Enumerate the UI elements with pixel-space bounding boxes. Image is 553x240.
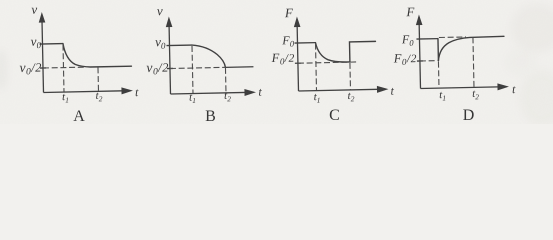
- graph D dashed vertical t1: [437, 62, 440, 88]
- paper background: [0, 0, 553, 124]
- graph A v-axis: [42, 22, 43, 92]
- graph C tick F0/2: [295, 62, 301, 64]
- graph B tick v0/2: [167, 67, 173, 69]
- graph B v0/2 level line after t2: [225, 66, 253, 69]
- graph B bending curve v0 to v0/2: [192, 44, 225, 68]
- graph B v0 level line with tick: [166, 44, 191, 47]
- graph D vertical drop at t1: [437, 39, 439, 61]
- graph A dashed horizontal v0/2: [43, 66, 84, 69]
- graph A dashed vertical t2: [97, 67, 99, 90]
- graph A tick v0/2: [40, 67, 46, 69]
- graph B t-axis: [171, 92, 246, 94]
- graph B t-axis arrowhead: [244, 89, 256, 96]
- graph A t-axis: [44, 91, 123, 93]
- graph A dashed vertical t1: [62, 45, 65, 92]
- graph D F-axis: [419, 24, 420, 88]
- graph B dashed vertical t1: [191, 46, 194, 93]
- graph D F0 level line with tick: [416, 38, 437, 40]
- graph D F-axis arrowhead: [416, 14, 423, 25]
- graph D recovery curve to F0: [438, 36, 504, 60]
- graph B v-axis: [169, 26, 170, 94]
- scan grain overlay: [0, 0, 1, 1]
- graph C t-axis arrowhead: [377, 86, 389, 93]
- graph D dashed horizontal F0 between t1 and t2: [439, 36, 466, 39]
- faint scan mottling right side: [0, 4, 553, 126]
- graph C F-axis: [297, 26, 298, 91]
- graph C F0 level line with tick: [294, 42, 315, 44]
- graph D dashed vertical t2: [473, 37, 474, 86]
- graph D t-axis arrowhead: [497, 83, 509, 90]
- graph B dashed horizontal v0/2: [170, 67, 225, 68]
- graph B dashed vertical t2: [224, 68, 227, 92]
- graph C dashed horizontal F0/2: [298, 62, 358, 63]
- graph C t-axis: [299, 89, 378, 91]
- graph C F-axis arrowhead: [294, 16, 301, 27]
- graph D tick F0/2: [417, 60, 423, 62]
- graph C dashed vertical t1: [315, 44, 318, 90]
- graph C decay curve F0 to F0/2: [315, 42, 349, 63]
- graph A t-axis arrowhead: [121, 87, 133, 94]
- graph D dashed horizontal F0/2: [420, 60, 437, 62]
- graph D t-axis: [421, 87, 499, 89]
- graph C dashed vertical t2: [349, 63, 352, 89]
- graph A v0 level line with tick: [39, 43, 62, 45]
- graph B v-axis arrowhead: [166, 16, 173, 27]
- graph A decay curve from v0 to v0/2: [63, 42, 131, 67]
- graph C step up at t2 and level F0 after: [349, 41, 375, 62]
- graph A v-axis arrowhead: [39, 12, 46, 23]
